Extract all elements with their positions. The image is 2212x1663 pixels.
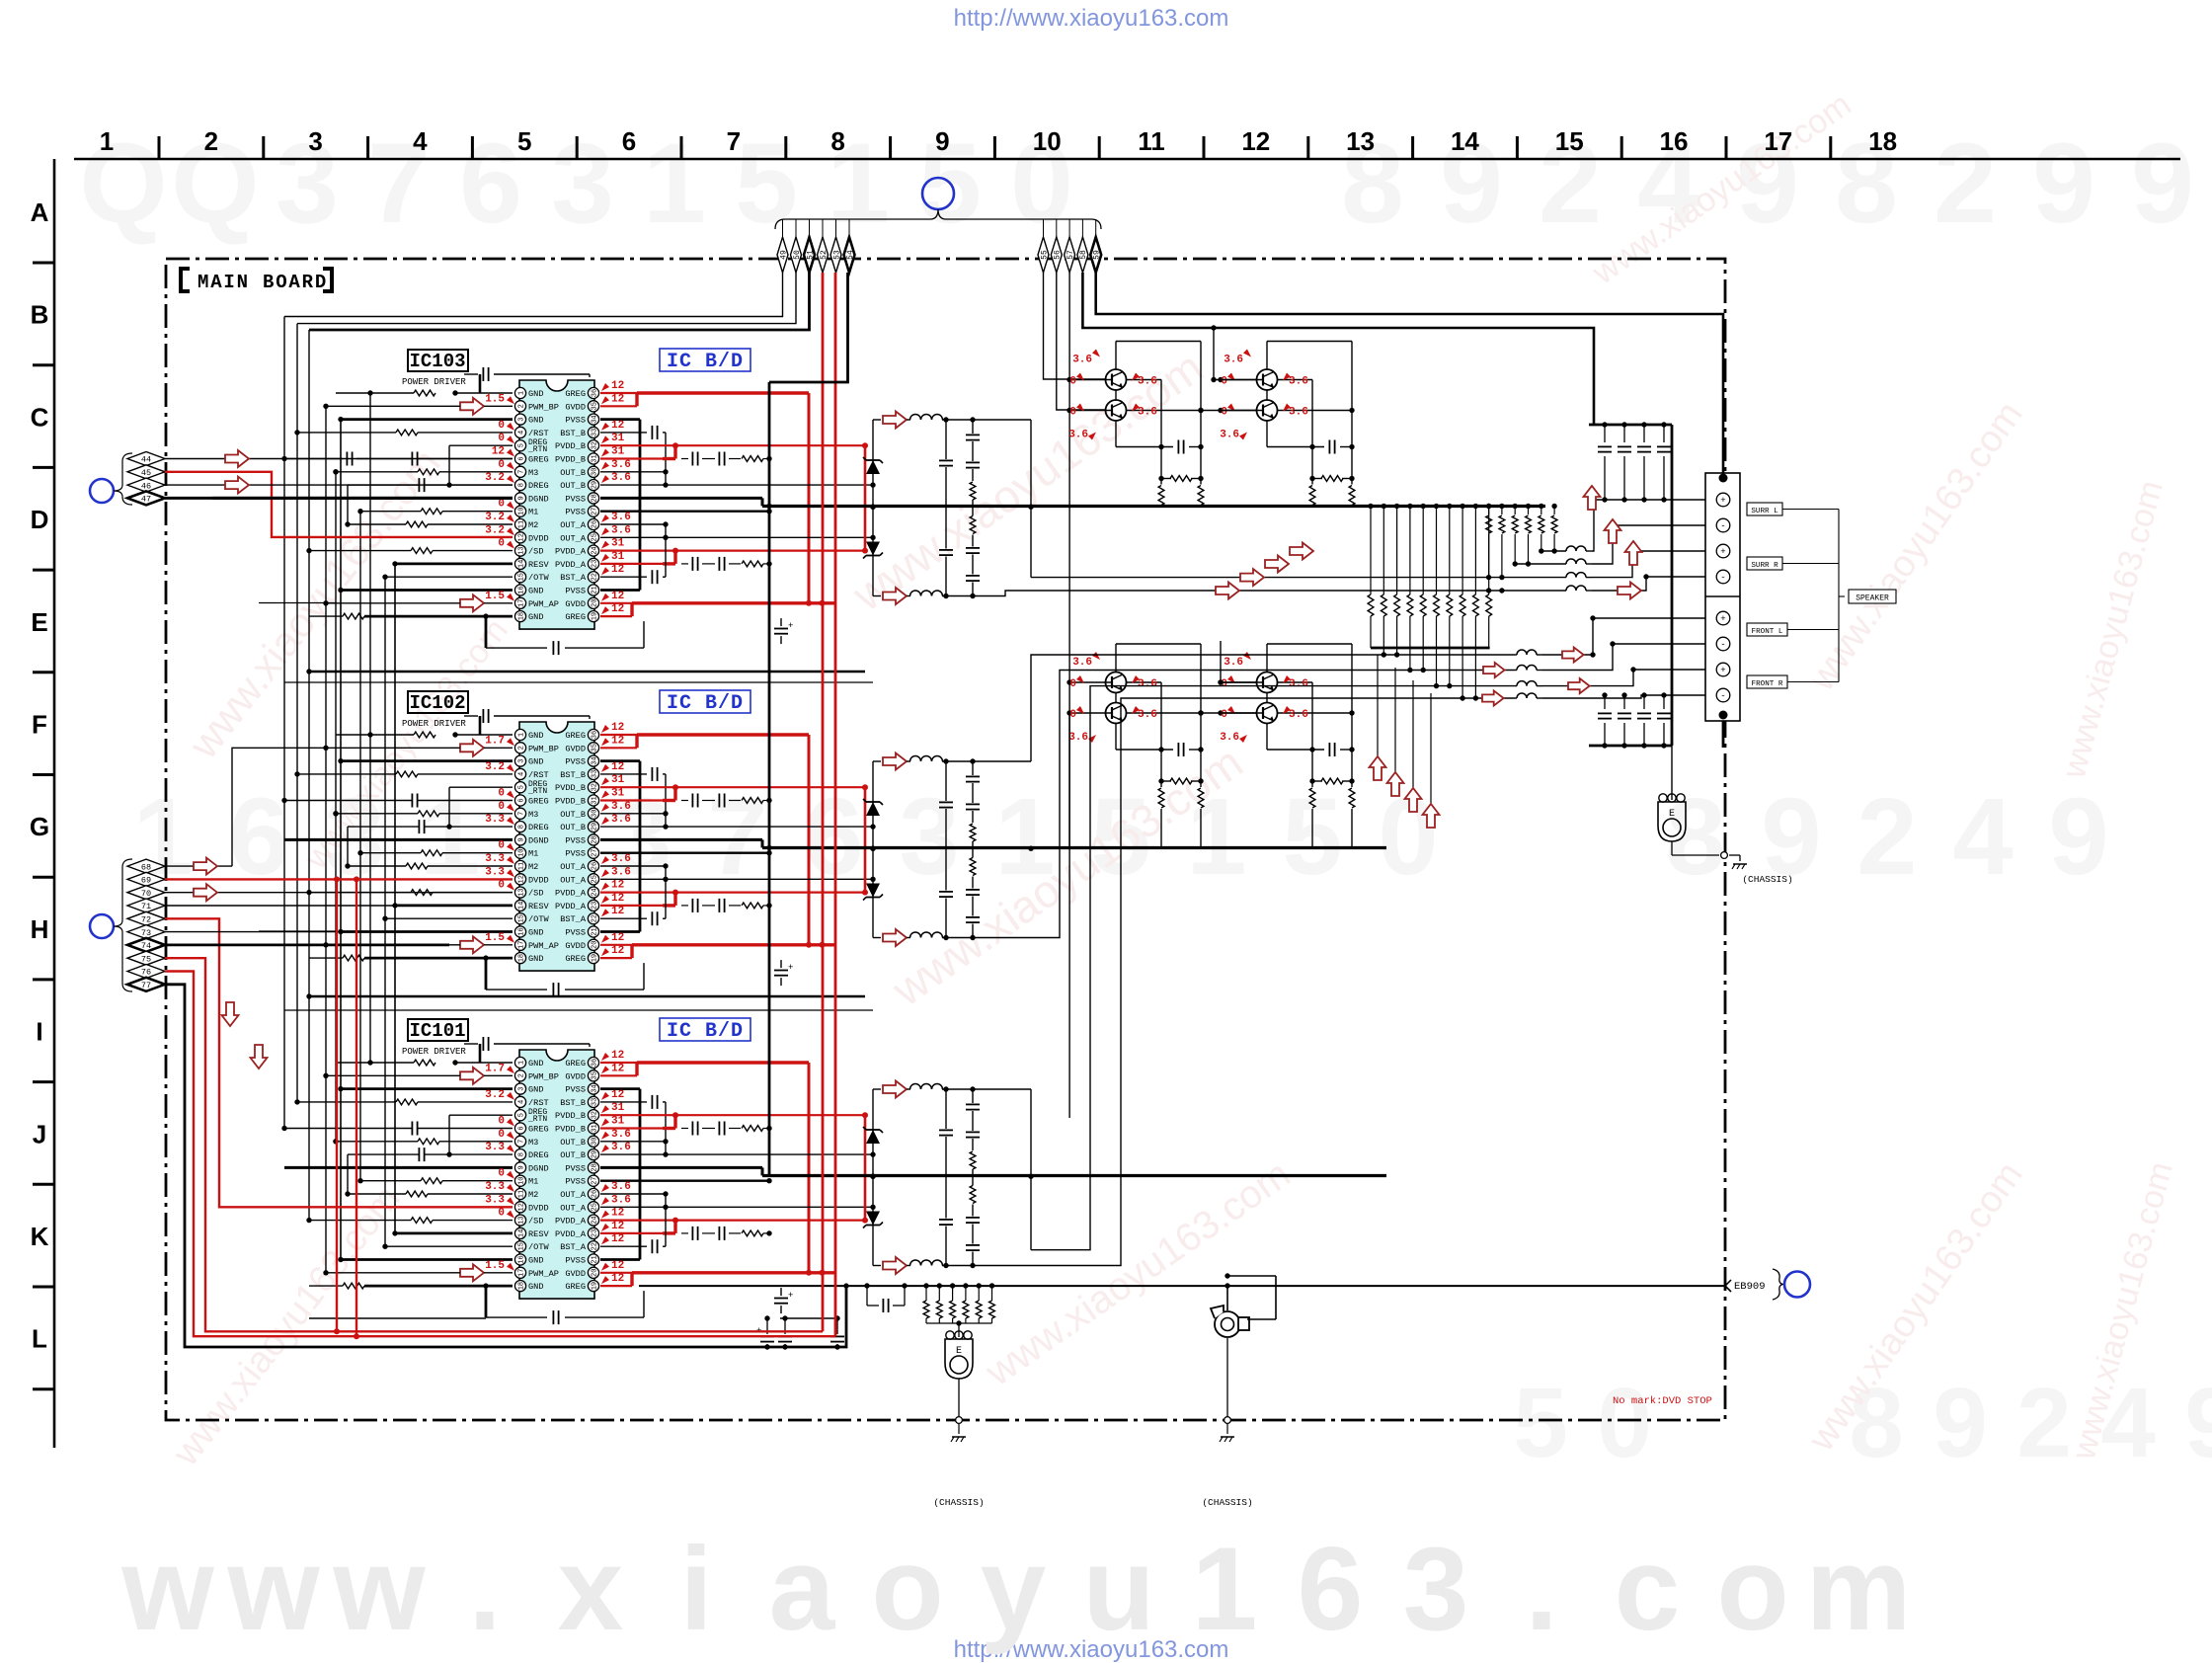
wire pin47 thick [165, 497, 513, 500]
IC101 pin 8 DREG [514, 1149, 525, 1160]
svg-text:3: 3 [276, 120, 339, 247]
svg-text:3.3: 3.3 [485, 814, 505, 826]
svg-text:31: 31 [611, 433, 625, 444]
svg-text:GVDD: GVDD [565, 941, 586, 951]
IC101 pin21 PVSS [600, 1258, 640, 1261]
bottom ground bus [639, 1285, 1725, 1287]
IC103 pin35 GVDD red [600, 405, 637, 407]
svg-text:12: 12 [611, 420, 624, 432]
svg-text:OUT_B: OUT_B [560, 810, 586, 820]
svg-text:GND: GND [528, 731, 543, 741]
svg-text:15: 15 [518, 914, 526, 922]
svg-text:/RST: /RST [528, 770, 549, 780]
svg-text:9: 9 [2131, 120, 2194, 247]
svg-text:3.3: 3.3 [485, 1142, 505, 1153]
svg-text:DGND: DGND [528, 835, 549, 845]
filter cap mid lower [945, 1227, 947, 1266]
IC103 top output row 584.6 [1031, 577, 1566, 579]
svg-text:9: 9 [518, 496, 526, 500]
svg-text:y: y [981, 1523, 1047, 1655]
IC101 snubber chain B [681, 1128, 688, 1130]
svg-text:30: 30 [592, 810, 599, 818]
svg-text:-: - [1720, 521, 1725, 531]
svg-text:IC103: IC103 [409, 351, 465, 372]
chassis ground symbol [952, 1436, 966, 1438]
IC102 PVDD_A red rail [864, 787, 867, 892]
svg-text:3.6: 3.6 [611, 459, 631, 471]
IC103 pin26 OUT_A [600, 523, 666, 525]
IC102 pin13 wire [411, 890, 433, 896]
IC101 pin11 wire [406, 1191, 428, 1197]
svg-text:31: 31 [592, 796, 599, 804]
speaker bracket [1782, 509, 1839, 511]
wire pin50 [297, 273, 796, 324]
IC103 pin29 OUT_B [600, 484, 873, 486]
IC101 pin 11 M2 [514, 1188, 525, 1199]
svg-text:17: 17 [1764, 126, 1792, 156]
svg-text:13: 13 [1346, 126, 1375, 156]
svg-text:8: 8 [518, 1152, 526, 1156]
IC103 pin 13 /SD [514, 545, 525, 556]
IC103 pin 7 M3 [514, 466, 525, 477]
svg-text:8: 8 [518, 825, 526, 829]
svg-text:3.2: 3.2 [485, 524, 505, 536]
svg-text:(CHASSIS): (CHASSIS) [1202, 1497, 1252, 1508]
svg-text:GREG: GREG [565, 389, 586, 399]
svg-text:J: J [33, 1119, 46, 1148]
IC103 pin 15 /OTW [514, 572, 525, 583]
filter output rail [1030, 760, 1032, 762]
IC102 pin 34 PVSS [588, 755, 598, 766]
svg-text:OUT_B: OUT_B [560, 823, 586, 832]
svg-text:GND: GND [528, 954, 543, 964]
chassis cap [866, 1286, 868, 1306]
svg-text:GREG: GREG [565, 612, 586, 622]
svg-text:BST_A: BST_A [560, 1242, 587, 1252]
svg-text:OUT_B: OUT_B [560, 1150, 586, 1160]
svg-text:3.6: 3.6 [1220, 732, 1239, 744]
svg-text:18: 18 [518, 954, 526, 962]
link lower [1201, 712, 1257, 714]
FRONT R label [1747, 675, 1787, 688]
svg-text:i: i [679, 1523, 712, 1655]
svg-text:w: w [120, 1523, 214, 1655]
IC102 pin22 BST_A [600, 917, 647, 919]
left connector 68-77 brace [114, 859, 132, 991]
IC103 pin 24 PVDD_A [588, 545, 598, 556]
svg-text:12: 12 [611, 1063, 624, 1074]
IC102 pin8 wire [418, 820, 420, 833]
svg-text:Q: Q [79, 120, 167, 247]
svg-text:OUT_A: OUT_A [560, 533, 587, 543]
svg-text:22: 22 [592, 1242, 599, 1250]
FRONT R- to terminal [1542, 695, 1706, 698]
svg-text:51: 51 [806, 250, 815, 260]
svg-text:12: 12 [518, 875, 526, 883]
emitter link [1278, 681, 1313, 683]
SURR row 558 [1541, 550, 1566, 552]
IC101 pin24 PVDD_A red [600, 1219, 865, 1221]
svg-text:PVDD_A: PVDD_A [555, 1217, 587, 1227]
top ruler ticks [158, 136, 161, 159]
border crossing [956, 1417, 963, 1424]
svg-text:5: 5 [517, 126, 531, 156]
svg-text:PVDD_B: PVDD_B [555, 783, 586, 793]
snubber resistor [1160, 447, 1162, 479]
left connector brace [114, 453, 132, 505]
svg-text:PVDD_B: PVDD_B [555, 455, 586, 465]
svg-text:M1: M1 [528, 849, 538, 859]
svg-text:1.5: 1.5 [485, 932, 505, 944]
svg-text:SURR R: SURR R [1751, 562, 1778, 570]
IC101 pin 17 PWM_AP [514, 1267, 525, 1278]
svg-text:28: 28 [592, 835, 599, 843]
EB909 blue circle [1784, 1272, 1810, 1298]
svg-text:BST_B: BST_B [560, 1098, 586, 1108]
svg-text:BST_B: BST_B [560, 429, 586, 438]
zener lower [866, 542, 880, 556]
svg-text:-: - [1720, 573, 1725, 583]
IC101 pin 36 GREG [588, 1057, 598, 1068]
IC101 pin 9 DGND [514, 1162, 525, 1173]
svg-text:9: 9 [935, 126, 949, 156]
IC101 pin 5 DREG [514, 1110, 525, 1121]
staircase arrows on surr rows [1290, 543, 1313, 560]
svg-text:10: 10 [1033, 126, 1062, 156]
svg-text:M3: M3 [528, 468, 538, 478]
IC103 pin33 BST_B [600, 432, 647, 434]
down arrow [222, 1002, 239, 1026]
svg-text:BST_A: BST_A [560, 573, 587, 583]
IC103 pin11 wire [406, 521, 428, 527]
svg-text:I: I [36, 1017, 42, 1047]
svg-text:OUT_A: OUT_A [560, 875, 587, 885]
wire pin53 red [834, 273, 837, 1336]
svg-text:0: 0 [1069, 376, 1076, 388]
svg-text:15: 15 [518, 573, 526, 581]
IC103 pin1 wire [455, 392, 513, 394]
svg-text:12: 12 [611, 906, 624, 917]
IC103 pin 34 PVSS [588, 414, 598, 425]
base feeds [1066, 679, 1071, 684]
svg-text:25: 25 [592, 1203, 599, 1211]
connector pin 69 [127, 872, 165, 886]
IC102 pin4 wire [396, 771, 418, 777]
svg-text:GVDD: GVDD [565, 1071, 586, 1081]
filter input rail [872, 420, 874, 596]
svg-text:69: 69 [141, 876, 151, 886]
svg-text:46: 46 [141, 481, 151, 491]
IC101 GREG red rail [637, 1061, 809, 1064]
IC101 pin1 wire [455, 1062, 513, 1064]
svg-text:12: 12 [518, 1203, 526, 1211]
svg-text:GREG: GREG [528, 797, 549, 807]
svg-text:21: 21 [592, 1255, 599, 1263]
IC103 pin6 wire [411, 452, 413, 466]
IC101 pin 30 OUT_B [588, 1136, 598, 1147]
svg-text:12: 12 [518, 533, 526, 541]
IC102 pin 1 GND [514, 729, 525, 740]
svg-text:A: A [31, 198, 49, 227]
base feeds [1066, 377, 1071, 382]
svg-text:7: 7 [518, 812, 526, 816]
svg-text:0: 0 [498, 499, 505, 511]
svg-text:18: 18 [1868, 126, 1897, 156]
top connector brace [775, 209, 1101, 229]
IC103 snubber chain B [681, 458, 688, 460]
IC101 snubber chain A [681, 1232, 688, 1234]
svg-text:31: 31 [611, 446, 625, 458]
IC102 pin17 wire [460, 936, 484, 953]
svg-text:11: 11 [518, 1190, 526, 1198]
svg-text:.: . [1525, 1523, 1557, 1655]
svg-text:50: 50 [793, 250, 802, 260]
svg-text:7: 7 [518, 1140, 526, 1144]
IC103 pin 3 GND [514, 414, 525, 425]
svg-text:13: 13 [518, 888, 526, 896]
connector pin 74 [127, 938, 165, 952]
svg-text:11: 11 [1138, 126, 1165, 156]
svg-text:10: 10 [518, 1176, 526, 1184]
terminal top feed [1722, 473, 1725, 478]
svg-text:M1: M1 [528, 508, 538, 517]
svg-text:5: 5 [518, 785, 526, 789]
svg-text:12: 12 [611, 932, 624, 944]
svg-text:1: 1 [518, 1061, 526, 1065]
SURR L label [1747, 503, 1782, 515]
filter RC upper [972, 1089, 974, 1103]
svg-text:31: 31 [611, 788, 625, 800]
IC103 pin 29 OUT_B [588, 480, 598, 491]
svg-text:1.5: 1.5 [485, 1260, 505, 1272]
svg-text:13: 13 [518, 1216, 526, 1224]
IC102 pin1 wire [455, 734, 513, 736]
output filter lower branch [873, 937, 881, 939]
IC101 pin 14 RESV [514, 1227, 525, 1238]
svg-text:31: 31 [592, 454, 599, 462]
IC101 pin20 GVDD red [600, 1272, 632, 1274]
svg-text:PWM_BP: PWM_BP [528, 744, 559, 753]
svg-text:w: w [332, 1523, 426, 1655]
svg-text:8: 8 [830, 126, 844, 156]
svg-text:29: 29 [592, 823, 599, 831]
transistor Q upper [1106, 369, 1127, 390]
IC102 pin 33 BST_B [588, 768, 598, 779]
svg-text:.: . [468, 1523, 501, 1655]
svg-text:w: w [226, 1523, 320, 1655]
wire pin69 red [165, 878, 513, 880]
svg-text:22: 22 [592, 573, 599, 581]
IC102 pin5 wire [449, 786, 513, 788]
red arrows surr [1584, 486, 1601, 510]
svg-text:7: 7 [518, 470, 526, 474]
svg-text:12: 12 [611, 761, 624, 773]
IC101 pin 7 M3 [514, 1136, 525, 1147]
IC102 pin 19 GREG [588, 953, 598, 964]
svg-text:DVDD: DVDD [528, 875, 549, 885]
IC IC103 reference label [408, 350, 468, 371]
svg-text:3.2: 3.2 [485, 472, 505, 484]
IC101 pin 6 GREG [514, 1123, 525, 1134]
svg-text:10: 10 [518, 848, 526, 856]
IC102 pin32 PVDD_B red [600, 786, 865, 788]
transistor pair block [1116, 643, 1201, 645]
IC101 bottom output riser [992, 698, 1515, 1266]
svg-text:16: 16 [518, 1255, 526, 1263]
IC103 PVDD_A red elbow [673, 551, 676, 564]
IC103 gnd rail left of IC [485, 616, 488, 648]
svg-text:L: L [32, 1324, 47, 1354]
svg-text:PVSS: PVSS [565, 508, 586, 517]
IC103 pin3 wire [341, 418, 513, 421]
svg-text:GREG: GREG [565, 1282, 586, 1292]
rail junction dots [323, 746, 328, 751]
svg-text:_RTN: _RTN [527, 445, 547, 454]
svg-text:16: 16 [518, 927, 526, 935]
svg-text:PVDD_A: PVDD_A [555, 560, 587, 570]
IC103 pin27 PVSS [600, 511, 769, 513]
svg-text:3.6: 3.6 [1072, 355, 1092, 366]
wire pin72 red [165, 918, 513, 1207]
snubber resistor [1311, 447, 1313, 479]
svg-text:RESV: RESV [528, 902, 549, 911]
IC101 pin3 wire [341, 1087, 513, 1090]
svg-text:GND: GND [528, 1256, 543, 1266]
left vertical rail x301 [296, 324, 298, 1102]
svg-text:PVDD_A: PVDD_A [555, 889, 587, 899]
transistor Q upper [1257, 369, 1278, 390]
svg-text:20: 20 [592, 599, 599, 607]
svg-text:28: 28 [592, 494, 599, 502]
svg-text:6: 6 [518, 798, 526, 802]
svg-text:54: 54 [846, 250, 855, 260]
svg-text:12: 12 [611, 591, 624, 602]
svg-text:3: 3 [518, 417, 526, 421]
svg-text:3.6: 3.6 [611, 472, 631, 484]
IC103 pin 17 PWM_AP [514, 597, 525, 608]
svg-text:GND: GND [528, 1085, 543, 1095]
IC103 snubber chain A [681, 563, 688, 565]
wire pin56 [1057, 273, 1106, 410]
IC103 pin4 wire [396, 430, 418, 436]
main board label brackets [181, 269, 190, 291]
svg-text:17: 17 [518, 1269, 526, 1277]
PVSS bus IC103 [762, 505, 1545, 508]
IC102 snubber chain A [681, 905, 688, 907]
IC102 pin28 PVSS to bus [600, 838, 762, 841]
top ruler line [74, 158, 2180, 161]
pulldown resistors [1311, 781, 1313, 787]
connector pin 76 [127, 965, 165, 979]
svg-text:29: 29 [592, 481, 599, 489]
svg-text:M2: M2 [528, 1190, 538, 1200]
svg-text:FRONT L: FRONT L [1752, 628, 1783, 636]
svg-text:20: 20 [592, 1269, 599, 1277]
svg-text:45: 45 [141, 468, 151, 478]
svg-text:GND: GND [528, 1282, 543, 1292]
IC101 pin35 GVDD red [600, 1074, 637, 1076]
IC102 pin9 DGND bus [284, 838, 513, 841]
svg-text:0: 0 [498, 420, 505, 432]
IC101 pin 24 PVDD_A [588, 1215, 598, 1226]
IC102 pin24 PVDD_A red [600, 891, 865, 893]
svg-text:27: 27 [592, 1176, 599, 1184]
svg-text:3: 3 [551, 120, 614, 247]
IC103 pin 31 PVDD_B [588, 453, 598, 464]
connector pin 71 [127, 899, 165, 912]
snubber cap [1328, 440, 1330, 454]
ic101 bottom caps [766, 1318, 768, 1334]
speaker connector body [1705, 473, 1740, 721]
output filter lower branch [873, 595, 881, 597]
svg-text:/OTW: /OTW [528, 573, 549, 583]
IC IC102 reference label [408, 691, 468, 713]
IC101 pin10 wire [421, 1178, 442, 1184]
IC103 PVSS rail [639, 420, 642, 591]
IC103 pin 23 PVDD_A [588, 558, 598, 569]
svg-text:2: 2 [1856, 776, 1917, 898]
svg-text:5: 5 [1513, 1368, 1568, 1478]
IC101 pin26 OUT_A [600, 1193, 666, 1195]
wire pin52 red [822, 273, 825, 1331]
svg-text:1: 1 [100, 126, 114, 156]
svg-text:GND: GND [528, 587, 543, 596]
motor connector [1226, 1286, 1228, 1310]
IC101 pin 18 GND [514, 1281, 525, 1292]
svg-text:12: 12 [611, 1260, 624, 1272]
svg-text:0: 0 [1221, 407, 1227, 419]
transistor Q upper [1106, 673, 1127, 693]
svg-text:3.2: 3.2 [485, 1089, 505, 1101]
svg-text:17: 17 [518, 941, 526, 949]
zener lower [866, 884, 880, 898]
red rail x341 [336, 879, 338, 1331]
svg-text:RESV: RESV [528, 560, 549, 570]
svg-text:5: 5 [518, 443, 526, 447]
border crossing [1721, 852, 1728, 859]
svg-text:PWM_AP: PWM_AP [528, 1269, 559, 1279]
svg-text:12: 12 [611, 735, 624, 747]
IC103 pin9 DGND bus [212, 497, 513, 500]
wire pin59 rail [1096, 273, 1723, 473]
connector pin 57 [1068, 219, 1070, 237]
IC102 gnd rail left of IC [485, 958, 488, 990]
svg-text:29: 29 [592, 1150, 599, 1158]
IC102 pin 10 M1 [514, 847, 525, 858]
svg-text:1: 1 [518, 733, 526, 737]
IC102 pin 24 PVDD_A [588, 887, 598, 898]
IC103 pin 18 GND [514, 611, 525, 622]
IC103 pin36 GREG red [600, 392, 637, 394]
IC101 pin 27 PVSS [588, 1175, 598, 1186]
IC B/D label [660, 1018, 750, 1041]
svg-text:23: 23 [592, 560, 599, 568]
IC102 pin 30 OUT_B [588, 808, 598, 819]
svg-text:75: 75 [141, 954, 151, 964]
svg-text:o: o [871, 1523, 943, 1655]
left connector 68-77 blue circle [90, 914, 114, 938]
IC103 GVDD red feed lower [632, 601, 834, 604]
svg-text:x: x [558, 1523, 624, 1655]
IC IC102 power driver [519, 722, 594, 971]
svg-text:3.6: 3.6 [1068, 732, 1088, 744]
IC102 pin31 PVDD_B red [600, 799, 663, 801]
svg-text:3.6: 3.6 [1289, 678, 1308, 690]
wire pin55 [1044, 273, 1106, 379]
IC101 pin 19 GREG [588, 1281, 598, 1292]
IC101 pin 33 BST_B [588, 1096, 598, 1107]
wire pin51 thick [309, 273, 810, 330]
